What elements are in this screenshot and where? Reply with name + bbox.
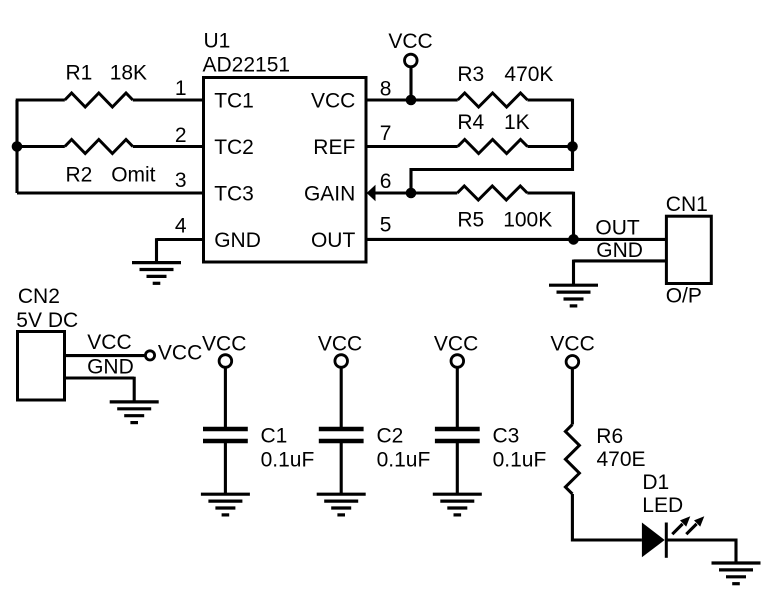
wire pin7 [366,145,458,148]
LED light arrow 1 shaft [672,524,682,534]
capacitor C3 [435,429,480,441]
ground C2 [317,494,366,515]
junction pin8 VCC node [406,95,417,106]
wire LED cathode to ground [666,540,736,563]
svg-text:2: 2 [175,124,187,147]
wire pin1 right segment [133,98,204,101]
svg-text:5: 5 [380,214,392,237]
svg-text:C3: C3 [493,425,520,448]
svg-text:REF: REF [313,136,355,159]
wire VCC stub U1 [409,67,412,100]
svg-text:VCC: VCC [318,332,362,355]
resistor R4 [458,140,528,154]
ground LED [712,563,761,584]
wire CN2 GND vertical [133,377,136,402]
wire C1 bottom [224,442,227,494]
svg-text:0.1uF: 0.1uF [493,449,547,472]
wire R4 right segment [528,145,573,148]
wire R6 bottom to LED [572,494,642,540]
svg-text:LED: LED [642,494,683,517]
wire pin5 OUT to CN1 [366,238,666,241]
svg-text:1: 1 [175,77,187,100]
svg-text:TC2: TC2 [214,136,254,159]
svg-text:VCC: VCC [550,332,594,355]
capacitor C1 [203,429,248,441]
wire R5 vertical to OUT [572,192,575,240]
VCC terminal circle CN2 [145,351,154,360]
svg-text:VCC: VCC [434,332,478,355]
wire pin6 [373,191,457,194]
svg-text:R6: R6 [596,425,623,448]
resistor R6 [565,425,579,495]
svg-text:GND: GND [596,239,643,262]
VCC terminal circle C3 [451,355,464,368]
ground pin4 [132,263,181,284]
svg-text:VCC: VCC [311,89,355,112]
junction R4 right node [567,141,578,152]
wire pin2 right segment [133,145,204,148]
wire C1 top [224,367,227,429]
wire left bus vertical [15,100,18,193]
ground C1 [201,494,250,515]
wire R5 right segment [527,191,573,194]
svg-text:VCC: VCC [202,332,246,355]
arrow into GAIN pin 6 [367,185,376,201]
VCC terminal circle U1 [405,54,418,67]
LED light arrow 2 shaft [686,524,696,534]
svg-text:3: 3 [175,169,187,192]
svg-text:Omit: Omit [111,164,155,187]
wire CN1 GND vertical [572,260,575,286]
svg-text:R4: R4 [457,111,484,134]
svg-text:R2: R2 [66,164,93,187]
svg-text:18K: 18K [110,62,147,85]
connector CN1 box [666,216,711,283]
wire C2 bottom [340,442,343,494]
svg-text:470E: 470E [597,448,646,471]
diode D1 LED triangle [642,523,665,558]
svg-text:C2: C2 [377,425,404,448]
svg-text:R3: R3 [457,63,484,86]
wire pin3 [17,191,204,194]
svg-text:GND: GND [87,356,134,379]
svg-text:GND: GND [214,229,261,252]
wire CN2 GND horizontal [65,376,135,379]
resistor R2 [65,140,133,154]
svg-text:GAIN: GAIN [304,182,355,205]
svg-text:OUT: OUT [311,229,356,252]
wire pin4 horizontal [157,238,204,241]
connector CN2 box [18,332,65,401]
svg-text:R1: R1 [66,62,93,85]
VCC terminal circle C1 [219,355,232,368]
svg-text:6: 6 [380,170,392,193]
wire pin1 left segment [16,98,65,101]
wire CN1 GND horizontal [574,259,667,262]
svg-text:VCC: VCC [158,342,202,365]
capacitor C2 [319,429,364,441]
VCC terminal circle R6 [566,356,579,369]
svg-text:D1: D1 [642,471,669,494]
LED light arrow 1 head [680,516,690,526]
wire pin2 left segment [16,145,65,148]
wire C3 bottom [456,442,459,494]
svg-text:AD22151: AD22151 [203,53,291,76]
svg-text:C1: C1 [261,425,288,448]
svg-text:O/P: O/P [666,285,702,308]
wire pin8 [366,98,458,101]
LED light arrow 2 head [694,516,704,526]
diode D1 cathode bar [665,523,668,558]
svg-text:4: 4 [175,215,187,238]
VCC terminal circle C2 [335,355,348,368]
junction GAIN feedback node [406,188,417,199]
svg-text:VCC: VCC [87,331,131,354]
resistor R3 [458,93,528,107]
junction OUT node [568,234,579,245]
wire pin4 vertical [155,238,158,262]
ground CN2 [110,402,159,423]
svg-text:TC1: TC1 [214,89,254,112]
wire CN2 VCC [65,354,145,357]
svg-text:VCC: VCC [388,30,432,53]
op-amp U1 box [204,78,367,263]
wire C3 top [456,367,459,429]
wire right vertical R3 to feedback [411,99,573,193]
svg-text:OUT: OUT [595,217,640,240]
svg-text:8: 8 [380,78,392,101]
svg-text:R5: R5 [457,209,484,232]
wire C2 top [340,367,343,429]
resistor R5 [457,186,527,200]
svg-text:470K: 470K [504,63,553,86]
svg-text:7: 7 [380,122,392,145]
svg-text:0.1uF: 0.1uF [261,449,315,472]
svg-text:1K: 1K [504,111,530,134]
wire R6 top [571,367,574,424]
wire R3 right segment [528,98,573,101]
junction left bus pin2 [12,141,23,152]
svg-text:TC3: TC3 [214,182,254,205]
ground C3 [433,494,482,515]
resistor R1 [65,93,133,107]
svg-text:CN2: CN2 [18,285,60,308]
svg-text:100K: 100K [503,209,552,232]
svg-text:5V DC: 5V DC [16,309,78,332]
svg-text:0.1uF: 0.1uF [377,449,431,472]
svg-text:CN1: CN1 [666,193,708,216]
ground CN1 [549,285,598,306]
svg-text:U1: U1 [204,30,231,53]
